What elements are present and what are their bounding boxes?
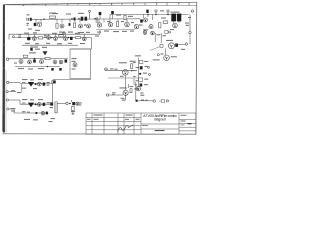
svg-text:diagram: diagram <box>154 118 166 122</box>
